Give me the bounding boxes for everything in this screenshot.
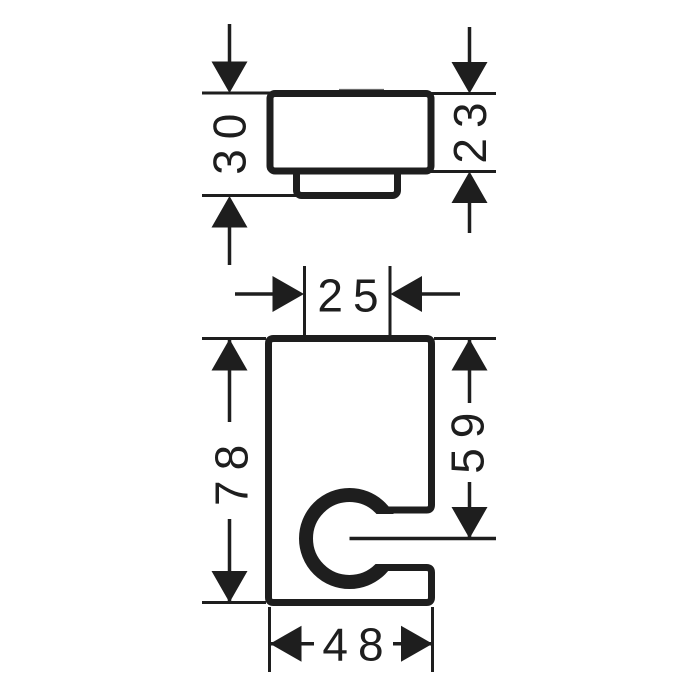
dim 48: right arrow [393,642,433,646]
svg-text:23: 23 [444,92,496,163]
dim 59: line lower segment [468,482,472,539]
dim 48: left extension line [268,607,271,672]
dim 23: top arrow [468,27,472,64]
dim 78: top extension line [202,337,266,340]
dim 30: bottom extension line [202,194,296,197]
hook slot erase [350,514,407,564]
dim 23: top extension line [428,92,496,95]
dim 25: left extension line [303,266,306,336]
svg-text:59: 59 [442,403,494,474]
svg-text:25: 25 [317,269,388,321]
main body (top view) [270,94,431,172]
dim 48: left arrow [270,642,314,646]
dim 78: line lower segment [228,519,232,603]
dim 23: bottom extension line [428,170,496,173]
dim 59: top arrow [452,339,488,371]
base plate (top view) [297,150,398,196]
dim 59: bottom arrow [452,507,488,539]
dim 59: middle extension line (hook centre) [350,537,497,541]
dim 25: left arrow [235,292,276,296]
dim 59: line upper segment [468,339,472,403]
svg-text:48: 48 [322,619,393,671]
seam on main body top edge [339,89,384,91]
svg-text:78: 78 [206,435,258,506]
dim 59: top extension line [434,337,496,340]
dim 30: top extension line [202,92,270,95]
dim 30: top arrow [228,24,232,64]
dim 30: bottom arrow [228,226,232,265]
dim 78: bottom extension line [202,601,266,604]
dim 23: bottom arrow [468,203,472,233]
dim 78: top arrow [212,339,248,371]
dim 25: right arrow [419,292,460,296]
hook ring [306,495,393,582]
dim 78: line upper segment [228,339,232,422]
dim 25: right extension line [389,266,392,336]
body outline (front view) [269,339,432,603]
svg-text:30: 30 [203,104,255,175]
dim 78: bottom arrow [212,571,248,603]
dim 48: right extension line [431,607,434,672]
